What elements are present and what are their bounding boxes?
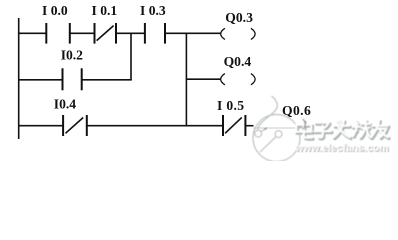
wire junction to coil Q0.4 xyxy=(186,78,221,80)
watermark logo circle xyxy=(253,96,300,162)
svg-text:Q0.6: Q0.6 xyxy=(282,103,311,118)
coil Q0.4 xyxy=(221,74,225,85)
svg-text:I 0.3: I 0.3 xyxy=(140,3,166,18)
svg-text:I 0.5: I 0.5 xyxy=(217,98,244,113)
watermark logo tick xyxy=(261,128,266,131)
wire faint under watermark to coil Q0.6 xyxy=(253,127,302,129)
wire branch vertical I0.2 up xyxy=(130,33,132,80)
contact I0.0 xyxy=(45,23,47,44)
svg-text:I 0.1: I 0.1 xyxy=(92,3,118,18)
watermark logo dark wedge xyxy=(264,127,268,129)
watermark chinese text 电子发烧友 (hand drawn, embossed) xyxy=(296,120,389,139)
watermark logo eye right xyxy=(275,131,282,138)
wire rung3 rail to I0.4 xyxy=(18,125,63,127)
contact I0.1 (NC) xyxy=(94,23,96,44)
wire I0.1 to I0.3 xyxy=(116,32,145,34)
svg-text:Q0.3: Q0.3 xyxy=(225,10,253,25)
svg-text:Q0.4: Q0.4 xyxy=(224,54,252,69)
contact I0.4 (NC) xyxy=(62,115,64,136)
wire rung2 rail to I0.2 xyxy=(18,79,63,81)
left power rail xyxy=(18,18,20,139)
watermark logo diagonal xyxy=(260,137,276,152)
wire I0.4 to I0.5 xyxy=(87,125,223,127)
svg-text:I0.4: I0.4 xyxy=(54,97,76,112)
wire I0.3 to coil Q0.3 xyxy=(165,32,221,34)
coil Q0.3 xyxy=(221,28,225,39)
svg-text:I 0.0: I 0.0 xyxy=(42,3,68,18)
wire junction vertical xyxy=(185,33,187,125)
wire rung1 rail to I0.0 xyxy=(18,32,46,34)
slash of NC contact I0.4 xyxy=(66,118,84,134)
slash of NC contact I0.1 xyxy=(97,26,114,41)
coil Q0.6 right paren (seen through watermark) xyxy=(303,119,305,130)
contact I0.5 (NC) xyxy=(222,115,224,136)
watermark logo antenna wave xyxy=(258,96,278,130)
wire I0.5 to coil Q0.6 xyxy=(245,125,253,127)
wire I0.2 to branch xyxy=(82,79,132,81)
watermark logo eye left xyxy=(255,130,262,137)
wire I0.0 to I0.1 xyxy=(70,32,95,34)
contact I0.2 xyxy=(62,68,64,90)
slash of NC contact I0.5 xyxy=(225,117,242,133)
svg-text:www.elecfans.com: www.elecfans.com xyxy=(294,142,389,154)
svg-text:I0.2: I0.2 xyxy=(61,48,83,63)
contact I0.3 xyxy=(144,23,146,44)
